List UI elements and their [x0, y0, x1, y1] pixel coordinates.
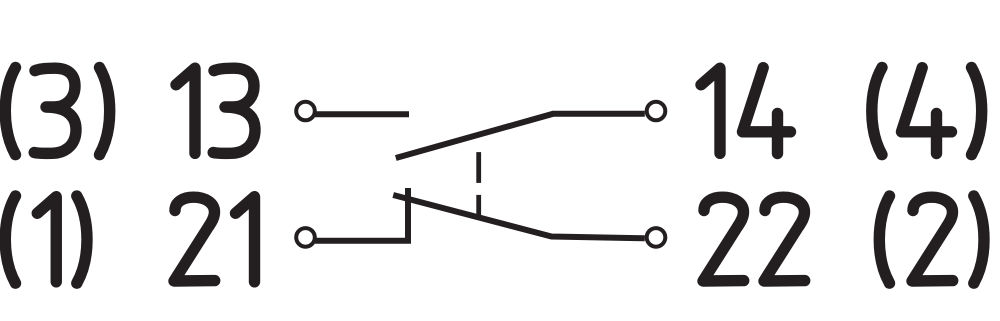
terminal label 14 [701, 68, 791, 154]
terminal label 21 [174, 197, 255, 282]
terminal label 13 [176, 68, 255, 153]
terminal circle 14 [647, 102, 666, 121]
terminal label (1) [5, 196, 87, 283]
wire lead from terminal 21 with NC fixed-contact riser [315, 188, 408, 241]
terminal label 22 [703, 197, 805, 281]
NO contact moving arm with wire lead to terminal 14 [396, 114, 645, 158]
terminal label (4) [872, 68, 982, 155]
NC contact moving arm with wire lead to terminal 22 [393, 195, 645, 238]
terminal label (2) [879, 196, 984, 283]
terminal circle 22 [647, 228, 666, 247]
terminal circle 21 [296, 228, 315, 247]
wire lead from terminal 13 [315, 111, 409, 117]
mechanical linkage dashed line (lower dash) [476, 195, 481, 216]
mechanical linkage dashed line (upper dash) [476, 152, 481, 183]
terminal label (3) [5, 68, 109, 155]
terminal circle 13 [296, 102, 315, 121]
